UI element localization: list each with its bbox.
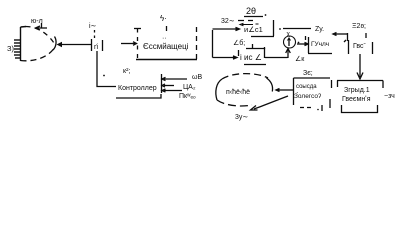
controller input bus bar: [161, 74, 163, 93]
wire down from gate to receiver with arrow: [357, 54, 363, 79]
gate collector bottom dashed curve: [21, 49, 54, 61]
svg-text:соысда: соысда: [296, 84, 317, 90]
svg-text:3у∼: 3у∼: [235, 114, 248, 121]
interference ellipse: [216, 74, 273, 106]
svg-text:∠к: ∠к: [295, 55, 305, 63]
wire schema box to ellipse with arrow: [276, 89, 293, 92]
dot mark: [103, 75, 105, 77]
svg-text:−зч: −зч: [384, 93, 395, 100]
arrow branch to lower box: [213, 56, 238, 59]
gate element at top right [se]: [344, 33, 373, 54]
small pointer arrow toward 32~: [240, 23, 259, 26]
controller bottom edge wire: [116, 94, 161, 98]
gate collector top dashed curve: [24, 26, 54, 43]
filter box Puch: [308, 37, 332, 54]
svg-text:··: ··: [162, 35, 167, 42]
node IN comb input bus: [14, 27, 26, 62]
bent arrow into receiver filter box: [333, 33, 348, 42]
svg-text:2θ: 2θ: [246, 6, 256, 16]
wire upper box output: [279, 28, 311, 30]
dotted reference line above sampler with label 1~: [89, 22, 97, 39]
svg-text:Єссмйащеці: Єссмйащеці: [143, 42, 189, 51]
svg-text:32∼: 32∼: [221, 18, 235, 25]
svg-text:Згрыд.1: Згрыд.1: [344, 87, 370, 94]
junction dot right of adder: [298, 42, 300, 44]
stray marks above decoder: [160, 14, 167, 42]
svg-text:Гвсˉ: Гвсˉ: [353, 43, 367, 50]
receiver box bottom bracket: [342, 105, 378, 113]
wire sampler to decoder box: [121, 42, 137, 46]
wire up into adder with arrow: [286, 49, 291, 59]
svg-text:Контроллер: Контроллер: [118, 85, 157, 92]
wire with arrow into gate point: [57, 42, 92, 47]
svg-text:п‹ћё‹ћё: п‹ћё‹ћё: [226, 88, 250, 96]
svg-text:Гвеємнʻя: Гвеємнʻя: [342, 95, 371, 103]
svg-text:З): З): [7, 44, 15, 53]
gate point arc: [53, 37, 56, 51]
adder circle: [284, 36, 296, 48]
sampler element |s|: [92, 39, 103, 51]
svg-text:ГУчлч: ГУчлч: [311, 41, 329, 48]
svg-text:Зє;: Зє;: [303, 70, 313, 77]
svg-text:Ζу.: Ζу.: [315, 26, 324, 33]
svg-text:ωВ: ωВ: [192, 74, 202, 81]
svg-text:χ: χ: [287, 31, 291, 38]
stray tick below wire: [305, 36, 307, 40]
svg-text:ϟ·: ϟ·: [160, 14, 167, 23]
controller input arrow 3: [162, 89, 182, 92]
svg-text:З́олегсоʔ: З́олегсоʔ: [294, 91, 321, 100]
label 2theta underlined: [244, 6, 266, 17]
svg-text:и∠с1: и∠с1: [244, 25, 263, 34]
wire lower box to adder: [265, 57, 288, 59]
dashed box decoder: [134, 27, 197, 60]
svg-text:г̇і: г̇і: [94, 43, 99, 51]
svg-text:ЦА₂: ЦА₂: [183, 84, 196, 91]
label K_n with pointer arrow: [31, 18, 47, 30]
arrow branch to upper box: [213, 27, 240, 30]
wire adder to filter box: [297, 42, 308, 45]
svg-text:і∼: і∼: [89, 22, 97, 30]
controller input arrow 1: [162, 77, 187, 80]
schema box: [294, 78, 332, 111]
receiver box top edge: [337, 81, 383, 89]
svg-text:Пкʷₑₒ: Пкʷₑₒ: [179, 93, 196, 100]
branch bus vertical: [212, 30, 214, 58]
lower box ucc2: [239, 44, 267, 65]
upper box uc1: [238, 20, 274, 37]
svg-text:к²;: к²;: [123, 68, 130, 75]
controller input arrow 2: [162, 84, 174, 87]
label 3ch with curved arrow: [235, 96, 288, 121]
svg-text:∠б;: ∠б;: [233, 39, 245, 47]
wire sampler down to controller: [97, 51, 116, 87]
svg-text:і ис ∠: і ис ∠: [240, 53, 262, 62]
svg-text:Ξ2ʚ;: Ξ2ʚ;: [352, 23, 366, 30]
